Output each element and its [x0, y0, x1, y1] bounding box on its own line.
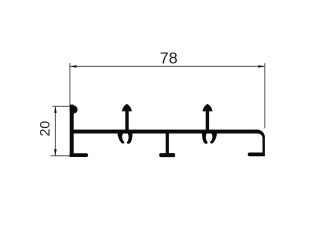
dimension 20: extension line top: [52, 105, 70, 107]
dimension 20: bottom arrowhead: [54, 149, 57, 155]
dimension 78: extension line left: [69, 63, 71, 105]
stud 2: screw-port C hook (mirrored): [202, 133, 217, 143]
dimension 78: left arrowhead: [70, 65, 76, 68]
middle T stud: foot: [159, 153, 175, 157]
dimension 20: extension line bottom: [51, 155, 70, 157]
profile: bottom-left foot: [70, 153, 88, 157]
svg-text:20: 20: [36, 121, 52, 137]
profile: main horizontal web: [73, 130, 258, 134]
middle T stud: stem: [166, 133, 169, 154]
dimension 78: dimension line: [70, 65, 264, 67]
stud 1: screw-port C hook: [118, 133, 133, 143]
profile: bulb at top of left bar: [70, 106, 78, 114]
stud 1: stem: [125, 108, 128, 131]
profile: left vertical bar: [70, 105, 74, 157]
stud 2: mushroom cap: [203, 104, 213, 112]
svg-text:78: 78: [160, 50, 178, 67]
stud 1: mushroom cap: [122, 104, 132, 112]
stud 2: stem: [206, 108, 209, 131]
dimension 78: extension line right: [264, 63, 266, 128]
profile: right end (curve down and bottom hook): [248, 130, 265, 157]
dimension 20: top arrowhead: [54, 107, 57, 113]
dimension 20: dimension line: [54, 107, 56, 156]
dimension 78: right arrowhead: [258, 65, 264, 68]
